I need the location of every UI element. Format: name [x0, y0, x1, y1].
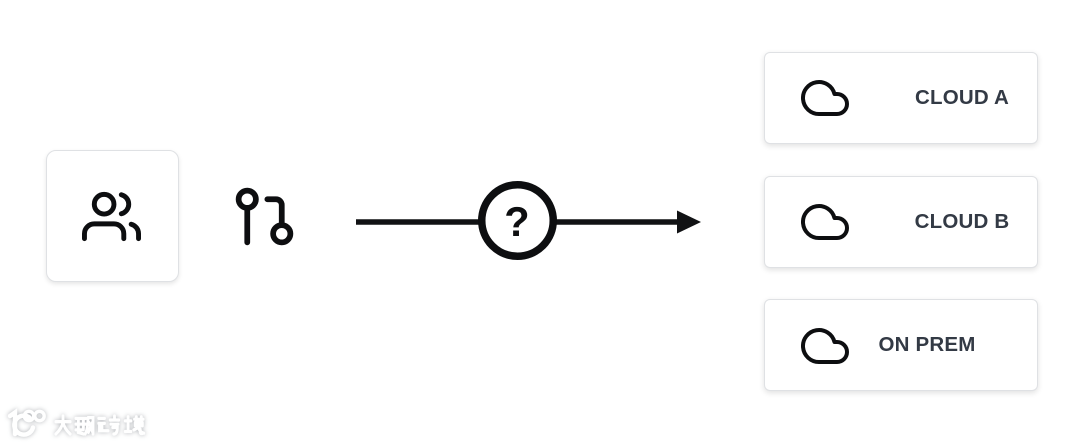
da: [56, 416, 70, 434]
cloud a icon: [801, 74, 849, 122]
on prem icon: [801, 322, 849, 370]
jing: [125, 417, 144, 434]
user card: [46, 150, 179, 282]
shu: [76, 418, 93, 434]
users icon: [82, 187, 141, 246]
watermark logo 10^100: [4, 403, 184, 443]
watermark text 大数跨境: [56, 416, 144, 434]
question circle: [474, 177, 561, 264]
cloud a card: [764, 52, 1038, 144]
on prem card: [764, 299, 1038, 391]
cloud b icon: [801, 198, 849, 246]
arrow: [354, 200, 704, 244]
git branch icon: [230, 182, 299, 251]
cloud b label: [915, 210, 1010, 234]
kua: [99, 416, 119, 434]
question mark: [504, 198, 530, 246]
cloud a label: [915, 86, 1009, 110]
cloud b card: [764, 176, 1038, 268]
on prem label: [878, 333, 975, 357]
